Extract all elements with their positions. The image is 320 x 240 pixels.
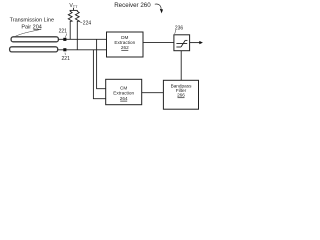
svg-text:264: 264: [120, 96, 128, 101]
svg-text:Receiver 260: Receiver 260: [114, 2, 151, 9]
svg-text:Extraction: Extraction: [114, 40, 135, 45]
svg-text:224: 224: [83, 21, 92, 27]
svg-text:236: 236: [175, 25, 184, 31]
svg-text:266: 266: [177, 93, 185, 98]
svg-text:Extraction: Extraction: [113, 90, 134, 95]
svg-text:Transmission Line: Transmission Line: [10, 18, 54, 24]
svg-text:TT: TT: [73, 5, 78, 9]
svg-text:221: 221: [62, 56, 71, 62]
svg-text:221: 221: [59, 29, 68, 35]
svg-text:262: 262: [121, 45, 129, 50]
